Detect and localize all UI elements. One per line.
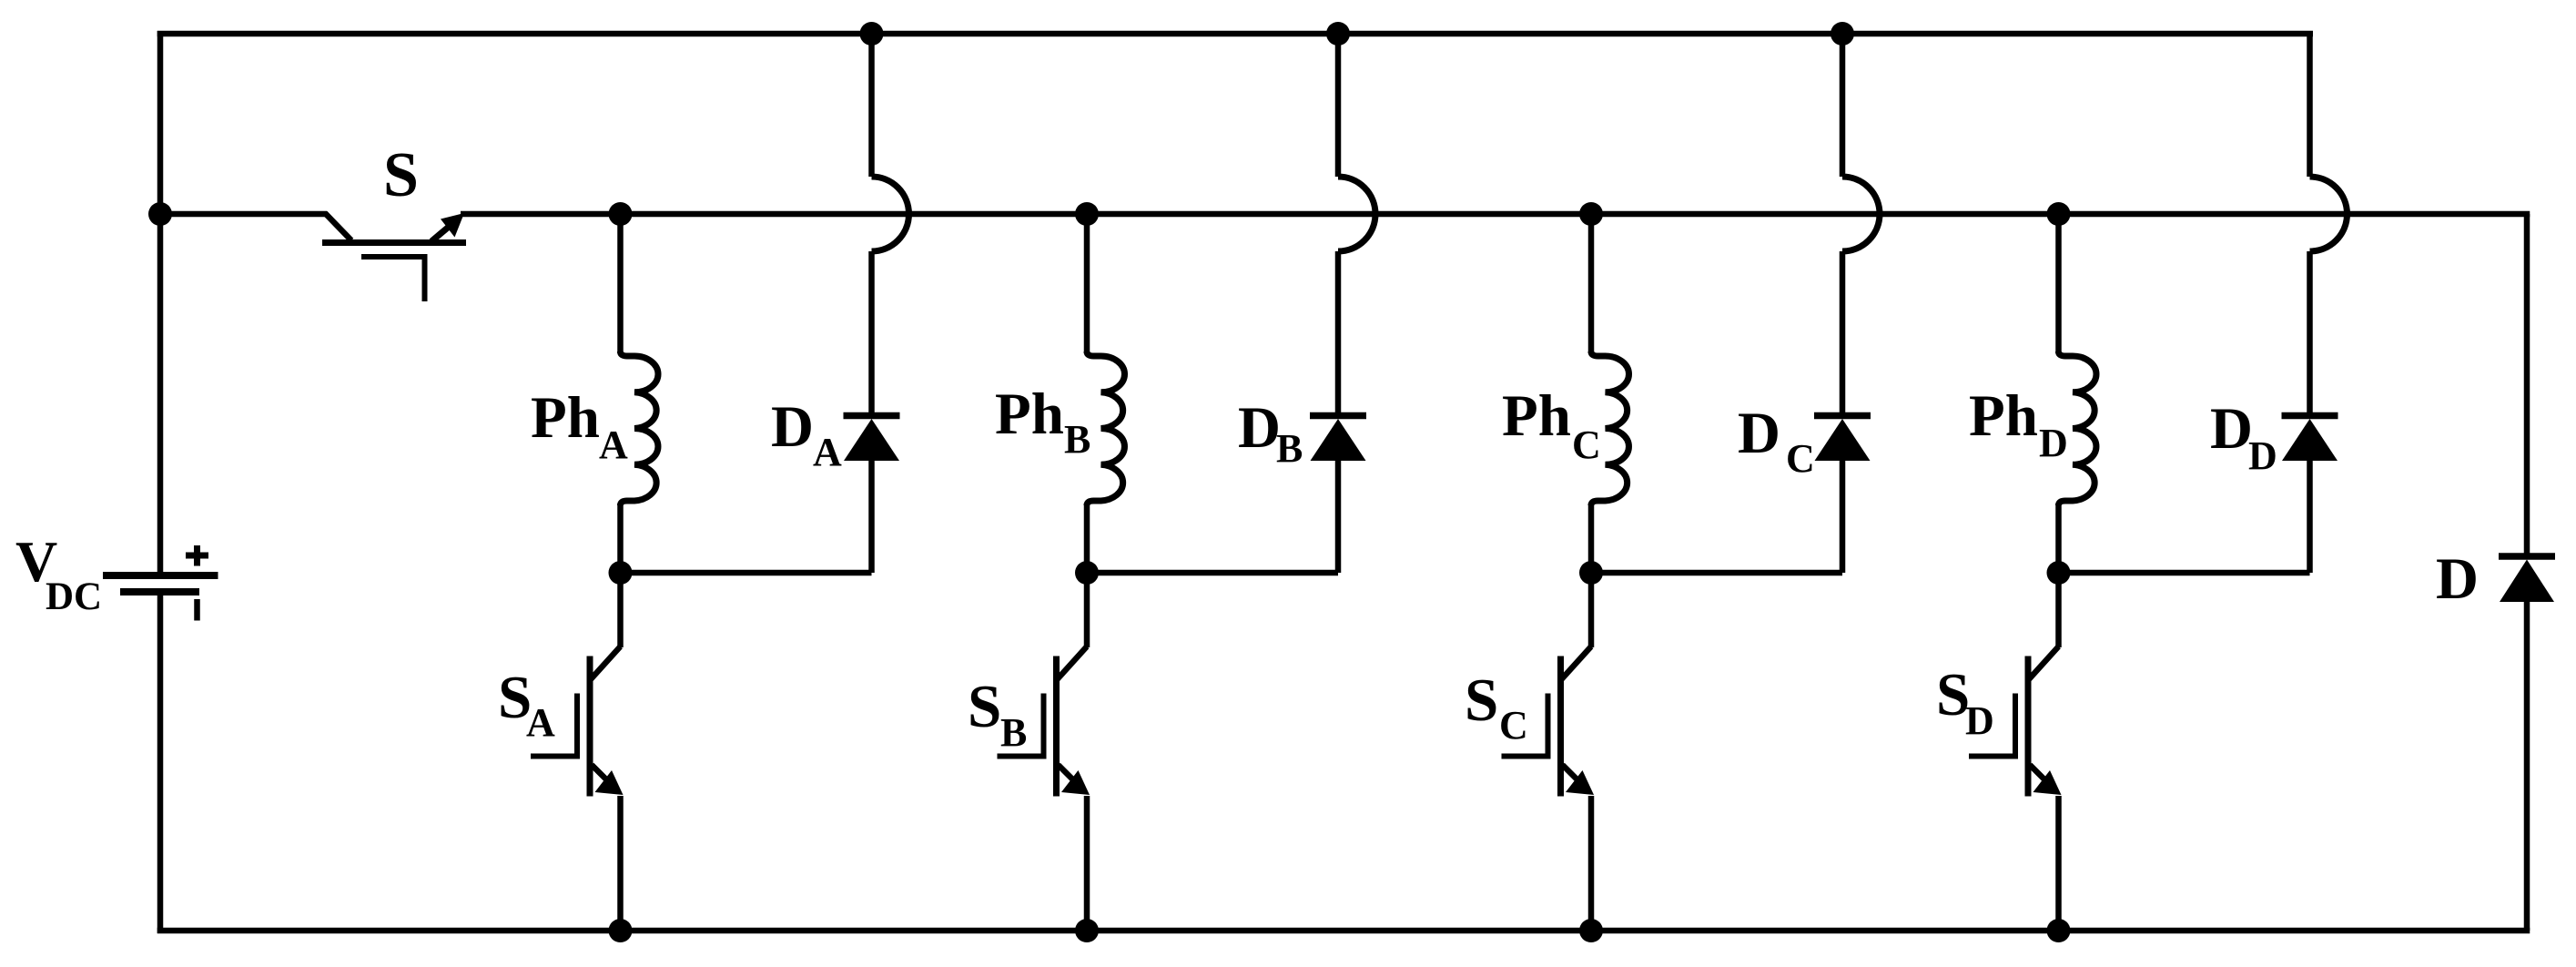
svg-text:C: C xyxy=(1499,703,1528,748)
svg-text:Ph: Ph xyxy=(531,385,600,451)
svg-text:Ph: Ph xyxy=(1969,383,2038,449)
svg-text:D: D xyxy=(1965,698,1994,743)
svg-text:Ph: Ph xyxy=(1502,383,1571,449)
svg-text:D: D xyxy=(2436,546,2479,612)
svg-text:D: D xyxy=(2039,421,2068,465)
svg-text:B: B xyxy=(1064,417,1090,462)
svg-text:D: D xyxy=(1738,401,1780,466)
svg-text:D: D xyxy=(771,394,814,460)
svg-text:DC: DC xyxy=(46,575,102,618)
svg-text:C: C xyxy=(1572,422,1601,467)
svg-text:D: D xyxy=(2210,396,2253,462)
svg-text:D: D xyxy=(2248,433,2277,478)
svg-text:C: C xyxy=(1786,436,1815,481)
svg-text:A: A xyxy=(599,422,628,467)
svg-text:A: A xyxy=(813,430,842,474)
svg-text:S: S xyxy=(1465,667,1498,734)
svg-text:S: S xyxy=(968,673,1001,740)
svg-text:Ph: Ph xyxy=(995,382,1064,447)
svg-text:B: B xyxy=(1000,710,1027,755)
svg-text:S: S xyxy=(383,140,419,210)
svg-text:D: D xyxy=(1238,395,1281,461)
svg-text:A: A xyxy=(526,700,555,745)
svg-text:B: B xyxy=(1276,426,1303,471)
